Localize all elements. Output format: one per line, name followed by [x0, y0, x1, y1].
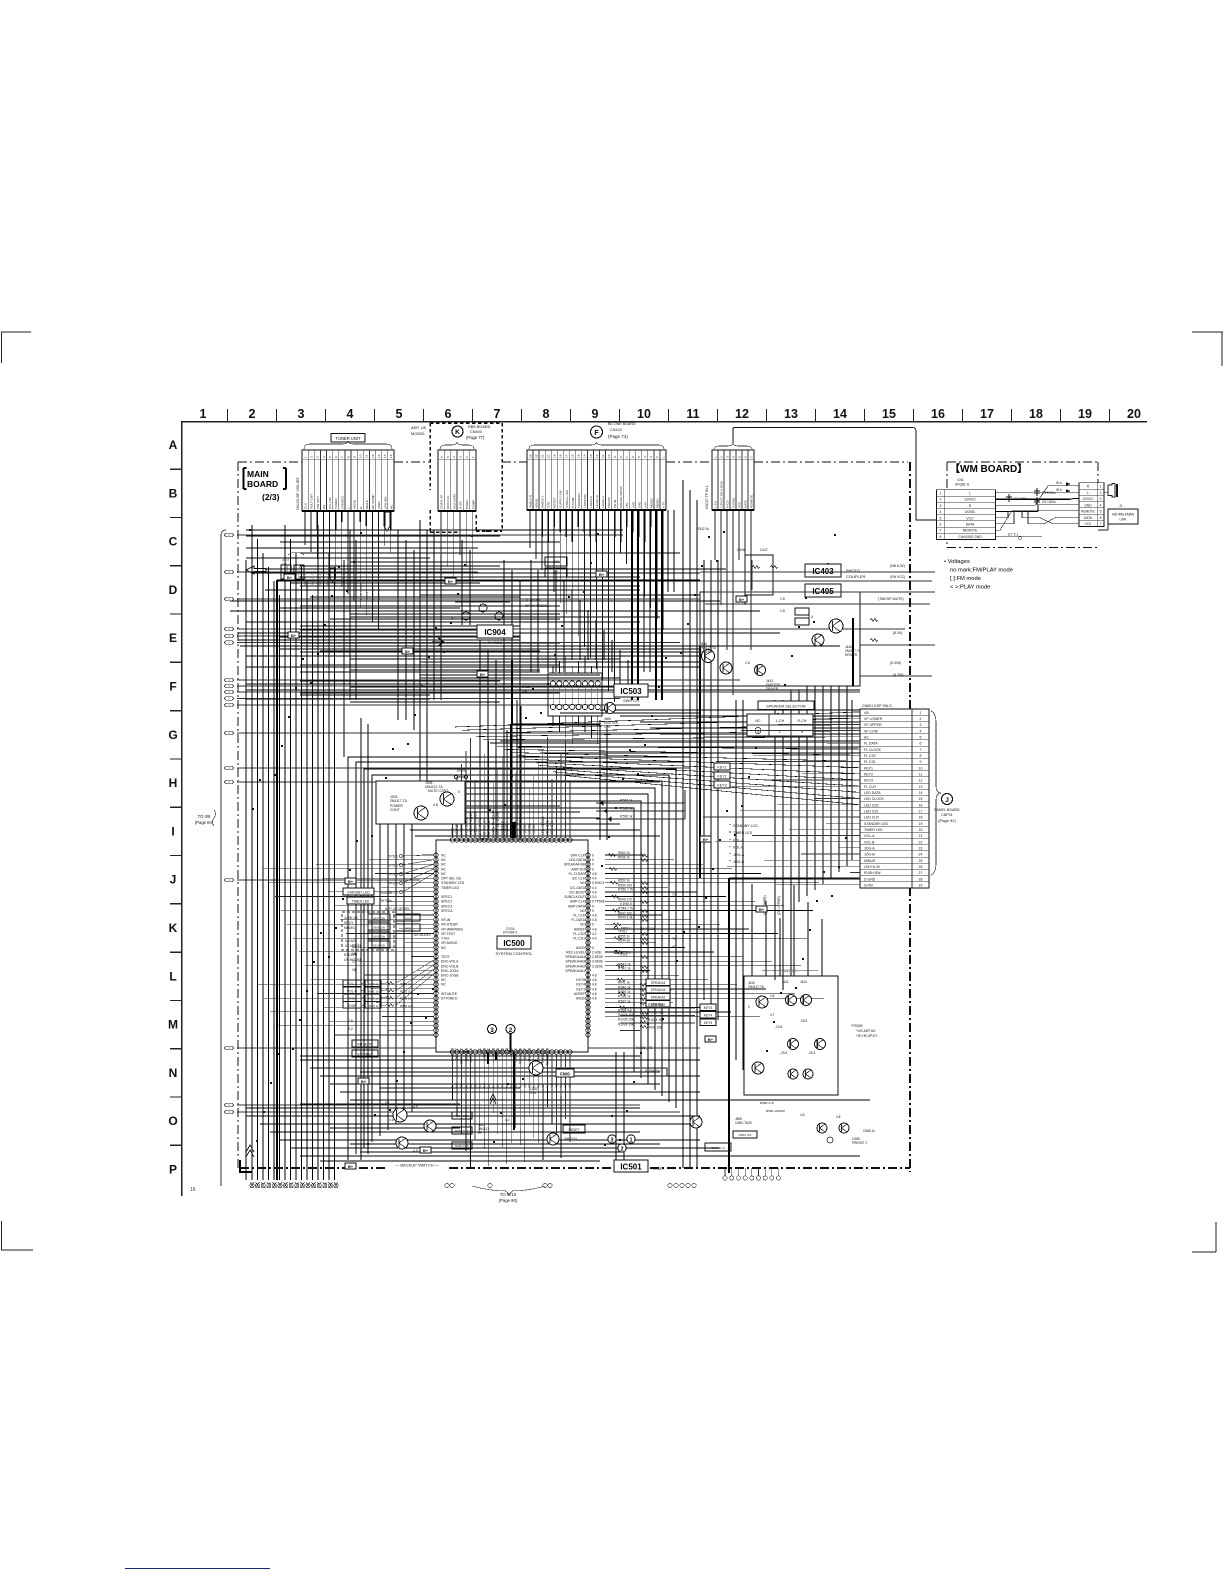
- svg-text:0 5%0.5: 0 5%0.5: [592, 881, 604, 885]
- svg-text:SWITCH: SWITCH: [783, 969, 798, 973]
- svg-text:TIMER LED: TIMER LED: [864, 828, 883, 832]
- svg-text:20: 20: [1127, 407, 1141, 421]
- svg-text:R580 10k: R580 10k: [400, 982, 413, 986]
- svg-text:0: 0: [748, 1005, 750, 1009]
- svg-text:INT-MUTE: INT-MUTE: [357, 1042, 372, 1046]
- svg-text:R1024 15k: R1024 15k: [648, 1018, 664, 1022]
- svg-text:4: 4: [731, 456, 735, 458]
- svg-text:1: 1: [200, 407, 207, 421]
- svg-text:JOGB: JOGB: [348, 1004, 358, 1008]
- svg-text:0.8: 0.8: [592, 918, 597, 922]
- svg-text:R1034 15k: R1034 15k: [618, 1013, 634, 1017]
- svg-text:R570 1k: R570 1k: [380, 899, 392, 903]
- svg-text:MINUS: MINUS: [864, 859, 876, 863]
- svg-text:K1064 33u: K1064 33u: [645, 1069, 661, 1073]
- svg-text:J: J: [945, 797, 949, 804]
- svg-text:A5: A5: [672, 945, 676, 949]
- svg-text:SAE: SAE: [637, 502, 641, 508]
- svg-text:R556 1k: R556 1k: [618, 856, 630, 860]
- svg-text:RXD-CLK: RXD-CLK: [514, 1047, 518, 1062]
- svg-text:4.6: 4.6: [523, 1083, 527, 1088]
- svg-text:4: 4: [1100, 503, 1102, 507]
- svg-text:0: 0: [458, 790, 460, 794]
- svg-text:SP-RELAY: SP-RELAY: [487, 818, 491, 835]
- svg-text:25: 25: [919, 859, 923, 863]
- svg-text:RBS BOARD: RBS BOARD: [468, 425, 491, 429]
- svg-text:4.6: 4.6: [564, 1083, 568, 1088]
- svg-text:L: L: [1087, 491, 1089, 495]
- svg-text:LED-CLEAR: LED-CLEAR: [541, 816, 545, 835]
- svg-text:NC: NC: [441, 946, 446, 950]
- svg-text:PANEL BOARD: PANEL BOARD: [934, 808, 960, 812]
- svg-text:IC501: IC501: [620, 1163, 642, 1172]
- svg-text:B+: B+: [405, 649, 411, 654]
- svg-text:JL HK US: JL HK US: [344, 916, 358, 920]
- svg-text:4.8: 4.8: [473, 1083, 477, 1088]
- svg-text:-25.5: -25.5: [780, 1051, 787, 1055]
- svg-text:6: 6: [1100, 516, 1102, 520]
- svg-text:R'537 1k: R'537 1k: [618, 999, 631, 1003]
- svg-text:3: 3: [316, 456, 320, 458]
- svg-text:17: 17: [565, 454, 569, 458]
- svg-text:4.7u: 4.7u: [530, 1091, 536, 1095]
- svg-text:0: 0: [592, 867, 594, 871]
- svg-text:11: 11: [919, 772, 923, 776]
- svg-text:19: 19: [1078, 407, 1092, 421]
- svg-text:INT-MUTE: INT-MUTE: [441, 992, 458, 996]
- svg-text:19: 19: [552, 454, 556, 458]
- svg-text:0 TP508: 0 TP508: [592, 900, 605, 904]
- svg-text:8: 8: [346, 456, 350, 458]
- svg-text:OST-HOLT: OST-HOLT: [460, 1048, 464, 1064]
- svg-text:RXT2: RXT2: [500, 1048, 504, 1056]
- svg-text:FL DATA: FL DATA: [864, 742, 878, 746]
- svg-text:18: 18: [352, 968, 356, 972]
- svg-text:2: 2: [249, 407, 256, 421]
- svg-text:L-CH: L-CH: [776, 719, 785, 723]
- svg-text:RESET: RESET: [653, 1167, 664, 1171]
- svg-text:VROUT: VROUT: [607, 497, 611, 508]
- svg-text:24: 24: [919, 853, 923, 857]
- svg-text:T-NO: T-NO: [441, 937, 449, 941]
- svg-text:+5V: +5V: [625, 501, 629, 508]
- svg-text:2.8: 2.8: [745, 661, 750, 665]
- svg-text:FL-DATA: FL-DATA: [571, 918, 585, 922]
- svg-text:VOL-A: VOL-A: [864, 834, 875, 838]
- svg-text:C5 1000u: C5 1000u: [1042, 500, 1056, 504]
- svg-text:TEST: TEST: [441, 955, 450, 959]
- svg-text:I2C-DATA: I2C-DATA: [570, 886, 586, 890]
- svg-text:VDD: VDD: [451, 827, 455, 835]
- svg-text:ENC-VOLB: ENC-VOLB: [441, 964, 459, 968]
- svg-text:14: 14: [919, 791, 923, 795]
- svg-text:R560 1k: R560 1k: [618, 851, 630, 855]
- svg-text:J808 10k: J808 10k: [373, 925, 386, 929]
- svg-text:DJ_5.1: DJ_5.1: [1008, 532, 1018, 536]
- svg-text:1: 1: [661, 456, 665, 458]
- svg-text:CN1: CN1: [957, 478, 964, 482]
- svg-text:4.6: 4.6: [389, 1118, 394, 1122]
- svg-text:4.4: 4.4: [518, 1083, 522, 1088]
- svg-text:18: 18: [559, 454, 563, 458]
- svg-text:I+7V: I+7V: [661, 501, 665, 508]
- svg-text:OPT SK. CB/VR: OPT SK. CB/VR: [496, 810, 500, 835]
- svg-text:VOL-A: VOL-A: [733, 838, 744, 842]
- svg-text:OST-CC: OST-CC: [455, 1047, 459, 1060]
- svg-text:SWITCH: SWITCH: [623, 698, 639, 703]
- svg-text:4.4: 4.4: [505, 1083, 509, 1088]
- svg-text:H: H: [169, 776, 178, 790]
- svg-text:VR-STDBY: VR-STDBY: [441, 923, 459, 927]
- svg-text:4.4: 4.4: [478, 1083, 482, 1088]
- svg-text:C447: C447: [760, 548, 768, 552]
- svg-text:R'550 7.7k: R'550 7.7k: [618, 888, 634, 892]
- svg-text:4.4: 4.4: [451, 1083, 455, 1088]
- svg-text:AMP-CLK: AMP-CLK: [570, 900, 586, 904]
- svg-text:NC: NC: [441, 867, 446, 871]
- svg-text:CN401 4P: CN401 4P: [440, 495, 444, 509]
- svg-text:NC: NC: [580, 909, 585, 913]
- svg-text:AEP, UK: AEP, UK: [411, 425, 427, 430]
- svg-text:MUTE: MUTE: [365, 500, 369, 509]
- svg-text:NC: NC: [580, 923, 585, 927]
- svg-text:4: 4: [940, 510, 942, 514]
- svg-text:5: 5: [940, 516, 942, 520]
- svg-text:19: 19: [919, 822, 923, 826]
- svg-text:3: 3: [298, 407, 305, 421]
- svg-text:R544 3.3k: R544 3.3k: [640, 927, 655, 931]
- svg-text:HOANB: HOANB: [482, 1048, 486, 1059]
- svg-text:VOLT CNT: VOLT CNT: [310, 494, 314, 509]
- svg-text:NC: NC: [580, 881, 585, 885]
- svg-text:KEY3: KEY3: [864, 779, 873, 783]
- svg-text:4.4: 4.4: [559, 1083, 563, 1088]
- svg-text:FY533 1k: FY533 1k: [326, 572, 330, 585]
- svg-text:B+: B+: [291, 633, 297, 638]
- svg-text:C1 1000u: C1 1000u: [1014, 497, 1028, 501]
- svg-text:-24.8: -24.8: [775, 1025, 782, 1029]
- svg-text:MAIN TR-RELAY: MAIN TR-RELAY: [491, 809, 495, 835]
- svg-text:R'539 1k: R'539 1k: [618, 990, 631, 994]
- svg-text:0: 0: [592, 923, 594, 927]
- svg-text:SPEAKA3: SPEAKA3: [651, 988, 666, 992]
- svg-text:R994 15k: R994 15k: [648, 1026, 662, 1030]
- svg-text:IC500: IC500: [503, 939, 525, 948]
- svg-text:B+: B+: [348, 879, 354, 884]
- svg-text:2.8: 2.8: [780, 597, 785, 601]
- svg-text:UN AEP: UN AEP: [345, 939, 357, 943]
- svg-text:CN103 ISP XSD JBT: CN103 ISP XSD JBT: [296, 476, 300, 510]
- svg-text:TIMER LED: TIMER LED: [352, 899, 370, 903]
- svg-text:DATA: DATA: [744, 499, 748, 508]
- svg-text:7V REG: 7V REG: [488, 640, 503, 645]
- svg-text:CHP.: CHP.: [604, 725, 611, 729]
- svg-text:VOL-A: VOL-A: [347, 982, 358, 986]
- svg-text:ENC-VOLA: ENC-VOLA: [441, 960, 459, 964]
- svg-text:FL CLR: FL CLR: [864, 785, 876, 789]
- svg-text:J614: J614: [800, 980, 807, 984]
- svg-text:9: 9: [613, 456, 617, 458]
- svg-text:Y26063-N: Y26063-N: [518, 820, 522, 835]
- svg-text:14: 14: [583, 454, 587, 458]
- svg-text:15: 15: [882, 407, 896, 421]
- svg-text:3: 3: [725, 456, 729, 458]
- svg-text:R549 170: R549 170: [618, 898, 632, 902]
- svg-text:0: 0: [592, 946, 594, 950]
- svg-text:NC: NC: [755, 719, 761, 723]
- svg-text:-25.3: -25.3: [808, 1051, 815, 1055]
- svg-text:VF UPPER: VF UPPER: [864, 723, 882, 727]
- svg-text:+US,AEP,UK: +US,AEP,UK: [856, 1029, 876, 1033]
- svg-text:20: 20: [546, 454, 550, 458]
- svg-text:TO III/10: TO III/10: [500, 1192, 517, 1197]
- svg-text:7: 7: [1100, 522, 1102, 526]
- svg-text:4.2: 4.2: [592, 932, 597, 936]
- svg-text:1: 1: [940, 492, 942, 496]
- svg-text:1: 1: [303, 456, 307, 458]
- svg-text:4.8: 4.8: [500, 1083, 504, 1088]
- svg-text:4.4: 4.4: [592, 886, 597, 890]
- svg-text:4.8: 4.8: [555, 1083, 559, 1088]
- svg-text:5: 5: [737, 456, 741, 458]
- svg-text:AGND: AGND: [535, 498, 539, 508]
- svg-text:KEY4: KEY4: [704, 1014, 713, 1018]
- svg-text:SPEAKA4: SPEAKA4: [651, 981, 666, 985]
- svg-text:MODELS: MODELS: [500, 820, 504, 835]
- svg-text:FY535 1k: FY535 1k: [341, 572, 345, 585]
- svg-text:(Page 90): (Page 90): [499, 1198, 518, 1203]
- svg-text:SPECA: SPECA: [441, 909, 453, 913]
- svg-text:LEVEL-R: LEVEL-R: [595, 494, 599, 508]
- svg-text:B+: B+: [708, 1037, 714, 1042]
- svg-text:J: J: [170, 873, 177, 887]
- svg-text:4: 4: [920, 729, 922, 733]
- svg-text:F000: F000: [560, 1072, 570, 1077]
- svg-text:O: O: [168, 1114, 177, 1128]
- svg-text:8: 8: [940, 535, 942, 539]
- svg-text:20: 20: [919, 828, 923, 832]
- svg-text:4.6: 4.6: [482, 1083, 486, 1088]
- svg-text:(Page 92): (Page 92): [938, 818, 956, 823]
- svg-text:R'590 1k: R'590 1k: [620, 815, 633, 819]
- svg-text:VF LOWER: VF LOWER: [864, 717, 883, 721]
- svg-text:17: 17: [919, 809, 923, 813]
- svg-text:4.8: 4.8: [487, 1083, 491, 1088]
- svg-text:4.8: 4.8: [770, 994, 775, 998]
- svg-text:G+5V: G+5V: [864, 884, 874, 888]
- svg-text:-25.5: -25.5: [800, 1019, 807, 1023]
- svg-text:DP-RELAY: DP-RELAY: [482, 818, 486, 835]
- svg-text:4.6: 4.6: [509, 1083, 513, 1088]
- svg-text:— BACKUP SWITCH —: — BACKUP SWITCH —: [395, 1163, 439, 1168]
- svg-text:J1: J1: [1119, 504, 1123, 508]
- svg-text:R1034 15k: R1034 15k: [648, 1003, 664, 1007]
- svg-text:R'536 4.8: R'536 4.8: [618, 1009, 632, 1013]
- svg-text:I2C-BUSY: I2C-BUSY: [569, 890, 585, 894]
- svg-text:TR43DOWN: TR43DOWN: [546, 1047, 550, 1066]
- svg-text:R'548 7.7k: R'548 7.7k: [618, 907, 634, 911]
- svg-text:B+: B+: [759, 907, 765, 912]
- svg-text:SPEC3: SPEC3: [441, 904, 452, 908]
- svg-text:D: D: [169, 583, 178, 597]
- svg-text:OST-41N: OST-41N: [464, 1047, 468, 1061]
- svg-text:4.8: 4.8: [592, 927, 597, 931]
- svg-text:JL US HK: JL US HK: [525, 598, 541, 602]
- svg-text:MGND: MGND: [655, 498, 659, 508]
- svg-text:NC: NC: [487, 1047, 491, 1052]
- svg-text:STANDBY LCD: STANDBY LCD: [733, 824, 758, 828]
- svg-text:4: 4: [452, 456, 456, 458]
- svg-text:B+: B+: [703, 837, 709, 842]
- svg-text:Y26062: Y26062: [528, 823, 532, 835]
- svg-text:G.GND: G.GND: [732, 497, 736, 508]
- svg-text:FL-CLEAR: FL-CLEAR: [569, 872, 586, 876]
- svg-text:DRIVER: DRIVER: [845, 653, 858, 657]
- svg-text:R580 4.7k: R580 4.7k: [760, 1101, 775, 1105]
- svg-text:R585 15k: R585 15k: [739, 1133, 752, 1137]
- svg-text:1/2VCC: 1/2VCC: [1082, 497, 1094, 501]
- svg-text:BAND: BAND: [465, 500, 469, 509]
- svg-text:KEY5: KEY5: [576, 978, 585, 982]
- svg-text:RESET: RESET: [569, 1128, 580, 1132]
- svg-text:7: 7: [625, 456, 629, 458]
- svg-text:LINK: LINK: [1119, 518, 1127, 522]
- svg-text:11: 11: [601, 455, 605, 458]
- svg-text:R603 1k: R603 1k: [367, 1004, 379, 1008]
- svg-text:KEY2: KEY2: [864, 772, 873, 776]
- svg-text:STTOREO: STTOREO: [441, 997, 458, 1001]
- svg-text:R727 1k: R727 1k: [298, 566, 302, 578]
- svg-text:4.6: 4.6: [592, 890, 597, 894]
- svg-text:GND: GND: [1084, 503, 1092, 507]
- svg-text:SPEAKER SELECTOR: SPEAKER SELECTOR: [766, 705, 806, 709]
- svg-text:AVREF: AVREF: [574, 927, 585, 931]
- svg-text:G: G: [168, 728, 177, 742]
- svg-text:VR-WARNING: VR-WARNING: [441, 927, 463, 931]
- svg-text:C: C: [169, 535, 178, 549]
- svg-text:(2/3): (2/3): [262, 492, 280, 502]
- svg-text:(A.3W): (A.3W): [893, 673, 904, 677]
- svg-text:FL CS1: FL CS1: [864, 760, 876, 764]
- svg-text:R601 1k: R601 1k: [367, 989, 379, 993]
- svg-text:REC-LEVEL: REC-LEVEL: [566, 950, 585, 954]
- svg-text:DRIVER: DRIVER: [700, 650, 713, 654]
- svg-text:IC405: IC405: [812, 587, 834, 596]
- svg-text:K1035_470: K1035_470: [636, 1046, 653, 1050]
- svg-text:14: 14: [833, 407, 847, 421]
- svg-text:C583 4.7u: C583 4.7u: [711, 1146, 725, 1150]
- svg-text:17: 17: [980, 407, 994, 421]
- svg-text:B+: B+: [599, 572, 605, 577]
- svg-text:4: 4: [643, 456, 647, 458]
- svg-text:K: K: [169, 921, 178, 935]
- svg-text:C1 1000u: C1 1000u: [1042, 491, 1056, 495]
- svg-text:FL-CLK: FL-CLK: [573, 914, 585, 918]
- svg-text:AVDD: AVDD: [576, 946, 586, 950]
- svg-text:C446: C446: [737, 548, 745, 552]
- svg-text:I2C-CLK: I2C-CLK: [572, 877, 586, 881]
- svg-text:12: 12: [595, 454, 599, 458]
- svg-text:MECO-POWER: MECO-POWER: [469, 811, 473, 835]
- svg-text:7: 7: [920, 748, 922, 752]
- svg-text:21: 21: [540, 454, 544, 458]
- svg-text:4.8: 4.8: [433, 803, 438, 807]
- svg-text:RDS CLK: RDS CLK: [446, 495, 450, 509]
- svg-text:10: 10: [359, 454, 363, 458]
- svg-text:TIMER LED: TIMER LED: [733, 831, 753, 835]
- svg-text:SPEAKA2: SPEAKA2: [651, 995, 666, 999]
- svg-text:CNP01: CNP01: [941, 813, 953, 817]
- svg-text:9: 9: [592, 407, 599, 421]
- svg-text:REMOTE: REMOTE: [1081, 510, 1095, 514]
- svg-text:9: 9: [920, 760, 922, 764]
- svg-text:4.6: 4.6: [455, 1083, 459, 1088]
- svg-text:FY532 1k: FY532 1k: [318, 572, 322, 585]
- svg-text:(Page 74): (Page 74): [608, 434, 628, 439]
- svg-text:L-CH: L-CH: [714, 501, 718, 508]
- svg-text:R544 1k: R544 1k: [618, 939, 630, 943]
- svg-text:PRESET-T: PRESET-T: [852, 1141, 868, 1145]
- svg-text:12k: 12k: [282, 562, 287, 566]
- svg-text:16: 16: [919, 803, 923, 807]
- svg-text:DGND: DGND: [965, 510, 976, 514]
- svg-text:4.0: 4.0: [505, 1118, 510, 1122]
- svg-text:13: 13: [377, 454, 381, 458]
- svg-text:0: 0: [592, 854, 594, 858]
- svg-text:FL CLOCK: FL CLOCK: [864, 748, 882, 752]
- svg-text:FY531 1k: FY531 1k: [311, 572, 315, 585]
- svg-text:5: 5: [446, 456, 450, 458]
- svg-text:STXREQ: STXREQ: [451, 1047, 455, 1061]
- svg-text:4.4: 4.4: [592, 937, 597, 941]
- svg-text:8: 8: [619, 456, 623, 458]
- svg-text:RESET: RESET: [553, 498, 557, 508]
- svg-text:LED-DATA: LED-DATA: [569, 858, 586, 862]
- svg-text:12: 12: [919, 779, 923, 783]
- svg-text:NC: NC: [389, 504, 393, 509]
- svg-text:ACK1: ACK1: [491, 1048, 495, 1057]
- svg-text:R580 1k: R580 1k: [380, 891, 392, 895]
- svg-text:R544 3.3k: R544 3.3k: [618, 916, 633, 920]
- svg-text:SUPPLY-SW: SUPPLY-SW: [559, 490, 563, 508]
- svg-text:3: 3: [649, 456, 653, 458]
- svg-text:16: 16: [190, 1187, 196, 1193]
- svg-text:STB: STB: [547, 502, 551, 508]
- svg-text:VR TEST: VR TEST: [441, 932, 455, 936]
- svg-text:NC: NC: [441, 858, 446, 862]
- svg-text:22: 22: [919, 840, 923, 844]
- svg-text:KEY1: KEY1: [717, 765, 726, 769]
- svg-text:STTOREO: STTOREO: [357, 1052, 373, 1056]
- svg-text:D.GND: D.GND: [864, 877, 876, 881]
- svg-text:NC: NC: [441, 863, 446, 867]
- svg-text:CONT: CONT: [390, 808, 400, 812]
- svg-text:2.8: 2.8: [780, 609, 785, 613]
- svg-text:LED CLR: LED CLR: [864, 816, 879, 820]
- svg-text:AC: AC: [864, 735, 869, 739]
- svg-text:FL-CS2: FL-CS2: [573, 932, 585, 936]
- svg-text:R602 1k: R602 1k: [367, 997, 379, 1001]
- svg-text:11: 11: [365, 455, 369, 458]
- svg-text:2N4117-TA: 2N4117-TA: [390, 799, 408, 803]
- svg-text:RXD-DATA: RXD-DATA: [518, 1047, 522, 1064]
- svg-text:4.8: 4.8: [836, 1115, 841, 1119]
- svg-text:L: L: [347, 507, 351, 509]
- svg-text:5: 5: [1100, 510, 1102, 514]
- svg-text:6: 6: [743, 456, 747, 458]
- svg-text:P-COM: P-COM: [571, 497, 575, 508]
- svg-text:P: P: [169, 1163, 177, 1177]
